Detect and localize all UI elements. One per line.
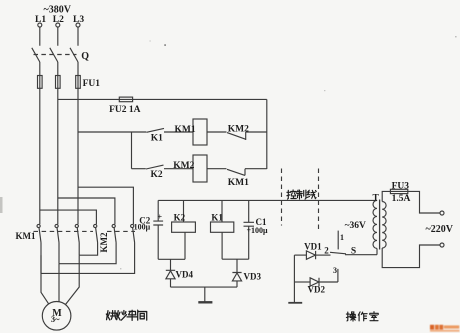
svg-text:1.5A: 1.5A [392, 194, 411, 204]
svg-text:3~: 3~ [51, 314, 60, 324]
svg-text:FU2 1A: FU2 1A [109, 105, 141, 115]
svg-text:KM1: KM1 [175, 125, 196, 135]
svg-text:+: + [158, 212, 163, 221]
svg-text:K1: K1 [211, 212, 223, 222]
svg-text:S: S [351, 247, 356, 257]
svg-text:VD1: VD1 [304, 241, 322, 251]
svg-text:KM1: KM1 [16, 231, 36, 241]
svg-text:VD2: VD2 [308, 285, 326, 295]
svg-text:L1: L1 [35, 15, 46, 25]
svg-text:2: 2 [324, 245, 329, 255]
svg-text:~36V: ~36V [345, 221, 366, 231]
svg-text:FU3: FU3 [392, 181, 410, 191]
svg-text:T: T [373, 193, 380, 203]
svg-text:KM1: KM1 [228, 178, 249, 188]
svg-text:K1: K1 [151, 134, 163, 144]
svg-text:3: 3 [333, 266, 337, 275]
svg-text:L3: L3 [73, 15, 84, 25]
svg-text:~220V: ~220V [426, 224, 454, 235]
svg-text:100μ: 100μ [134, 222, 151, 231]
svg-text:K2: K2 [174, 212, 186, 222]
svg-text:+100μ: +100μ [247, 226, 269, 235]
svg-text:KM2: KM2 [173, 161, 194, 171]
svg-text:KM2: KM2 [228, 125, 249, 135]
svg-text:VD3: VD3 [244, 272, 262, 282]
svg-text:Q: Q [81, 51, 89, 62]
svg-text:FU1: FU1 [83, 79, 101, 89]
svg-text:VD4: VD4 [176, 270, 194, 280]
svg-text:L2: L2 [53, 15, 64, 25]
svg-text:~380V: ~380V [44, 4, 72, 15]
svg-text:KM2: KM2 [99, 232, 109, 252]
svg-text:K2: K2 [151, 170, 163, 180]
svg-text:1: 1 [340, 233, 344, 242]
